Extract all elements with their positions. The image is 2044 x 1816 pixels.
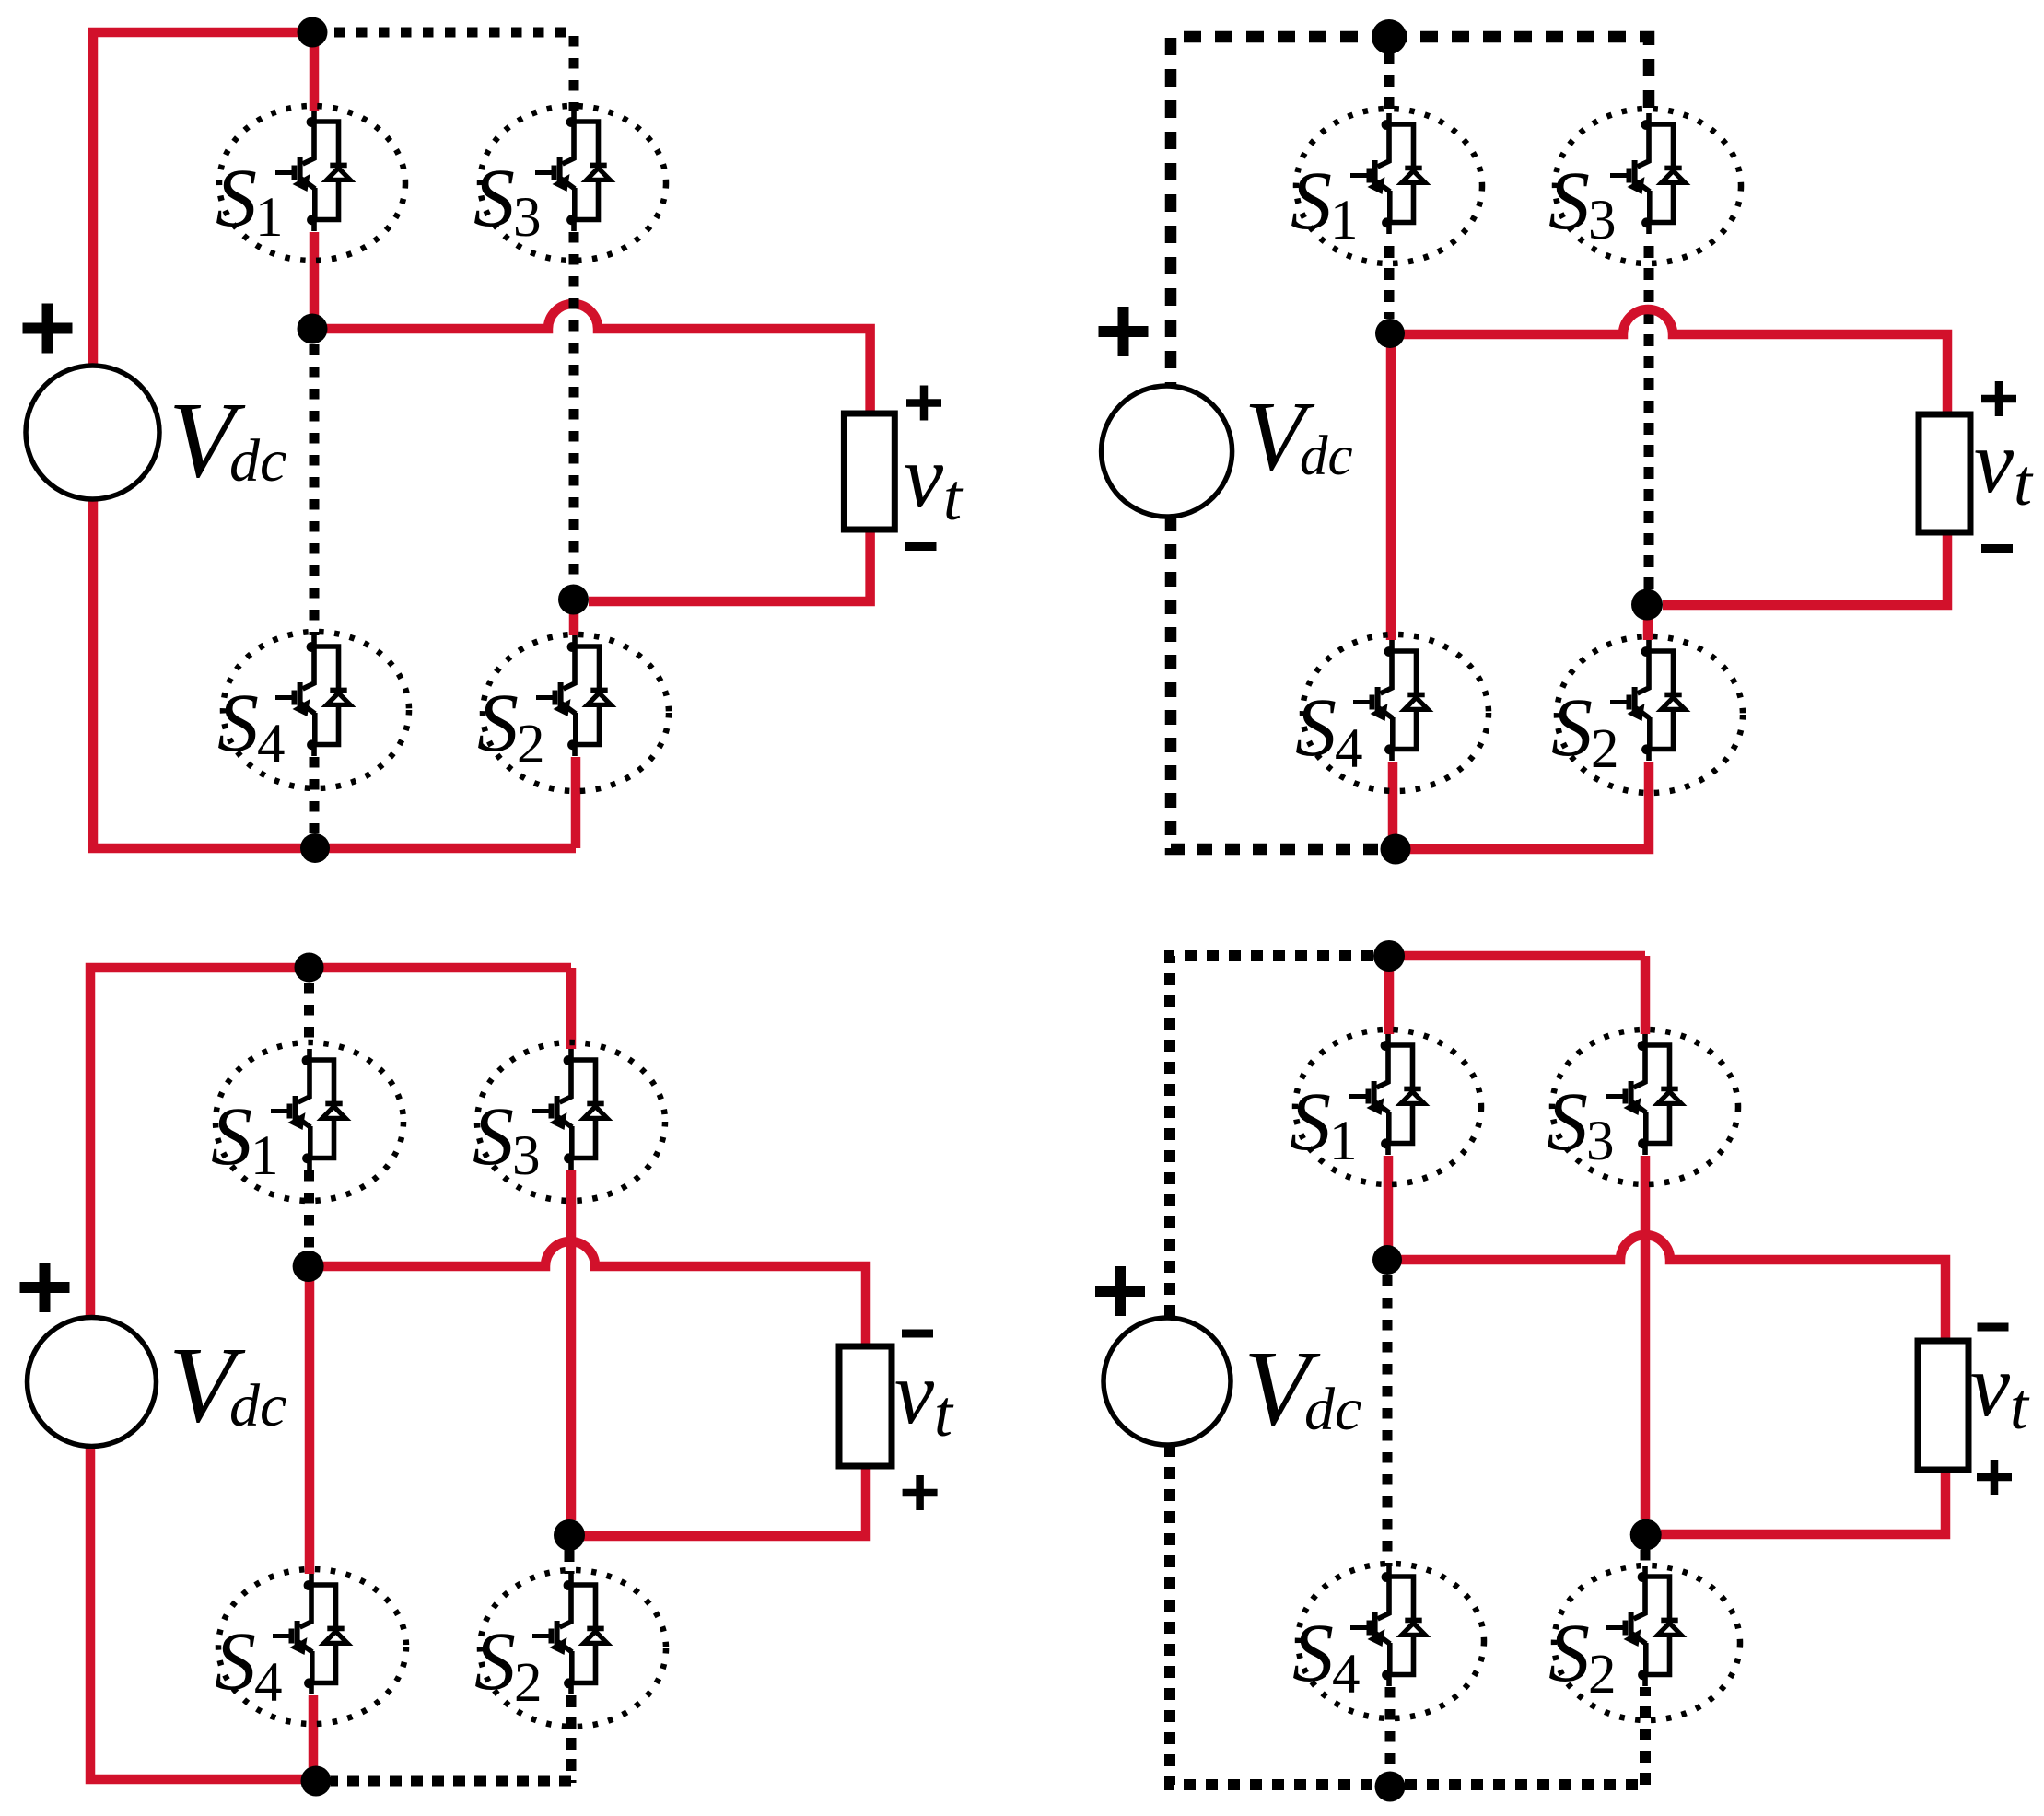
svg-text:S: S	[1551, 682, 1593, 774]
svg-text:3: 3	[512, 1125, 541, 1187]
svg-text:2: 2	[514, 1652, 543, 1714]
wire P4 S4 upper (off) (inactive path, dashed)	[1383, 1275, 1393, 1566]
svg-text:S: S	[477, 678, 519, 769]
svg-text:3: 3	[1588, 190, 1617, 251]
load resistor vt panel2	[1919, 414, 1970, 532]
svg-text:4: 4	[254, 1652, 283, 1714]
wire P3 node-a to load with crossover hop (conducting path, red)	[309, 1241, 866, 1346]
wire P1 node-a to load with crossover hop (conducting path, red)	[312, 304, 870, 413]
svg-text:S: S	[216, 153, 257, 244]
plus polarity mark of Vdc panel3	[20, 1263, 70, 1312]
dotted package outline around S4	[223, 632, 409, 788]
dotted package outline around S2	[480, 1570, 666, 1727]
svg-text:4: 4	[257, 714, 286, 775]
transistor S1 panel3 (IGBT with antiparallel diode)	[271, 1049, 345, 1170]
svg-text:2: 2	[517, 714, 545, 775]
node P2 negative dc rail (junction dot)	[1381, 834, 1411, 865]
svg-text:t: t	[934, 1377, 954, 1450]
wire P3 left rail lower + bottom rail left (conducting path, red)	[90, 1447, 316, 1779]
svg-text:v: v	[904, 427, 944, 526]
wire P3 S1 upper (off) (inactive path, dashed)	[304, 983, 314, 1049]
wire P2 S4 lower lead (conducting path, red)	[1388, 762, 1398, 849]
svg-text:1: 1	[255, 187, 284, 249]
svg-text:S: S	[1292, 1608, 1334, 1699]
transistor S2 panel1 (IGBT with antiparallel diode)	[536, 635, 611, 756]
svg-text:S: S	[211, 1091, 252, 1182]
wire P2 node-a to load with crossover hop (conducting path, red)	[1390, 309, 1947, 414]
node P4 node a (S1-S4 midpoint) (junction dot)	[1372, 1245, 1402, 1275]
node P4 negative dc rail (junction dot)	[1375, 1772, 1406, 1802]
dotted package outline around S1	[219, 106, 405, 261]
transistor S4 panel1 (IGBT with antiparallel diode)	[275, 635, 350, 756]
svg-text:S: S	[1548, 1608, 1590, 1699]
svg-text:1: 1	[251, 1125, 279, 1187]
svg-text:v: v	[1974, 413, 2015, 511]
wire P1 top rail left + left rail upper (conducting path, red)	[93, 32, 312, 366]
wire P4 top rail right (conducting path, red)	[1389, 951, 1645, 961]
wire P4 S3 lower lead through hop to node b (conducting path, red)	[1641, 1156, 1651, 1519]
wire P2 S2 upper lead (conducting path, red)	[1643, 605, 1653, 640]
wire P4 load bottom to node b (conducting path, red)	[1661, 1470, 1945, 1534]
wire P3 S3 upper lead (conducting path, red)	[566, 968, 577, 1049]
transistor S2 panel4 (IGBT with antiparallel diode)	[1606, 1566, 1681, 1686]
dotted package outline around S2	[1554, 1566, 1740, 1720]
wire P1 S2 lower lead (conducting path, red)	[571, 757, 581, 848]
svg-text:S: S	[473, 153, 515, 244]
node P1 positive dc rail (junction dot)	[298, 17, 328, 48]
plus polarity mark P2 load + (top)	[1981, 381, 2016, 416]
wire P1 load bottom to node b (conducting path, red)	[589, 530, 870, 601]
transistor S4 panel4 (IGBT with antiparallel diode)	[1350, 1566, 1425, 1686]
node P2 positive dc rail (junction dot)	[1372, 19, 1407, 54]
wire P4 left rail lower + bottom rail (off) (inactive path, dashed)	[1170, 1445, 1645, 1785]
voltage source Vdc panel3	[28, 1318, 157, 1447]
svg-text:dc: dc	[1304, 1376, 1361, 1443]
svg-text:1: 1	[1329, 1111, 1358, 1172]
node P1 negative dc rail (junction dot)	[300, 833, 330, 863]
transistor S2 panel3 (IGBT with antiparallel diode)	[532, 1574, 607, 1694]
node P1 node b (S3-S2 midpoint) (junction dot)	[558, 585, 589, 615]
dotted package outline around S1	[1295, 1030, 1481, 1184]
minus polarity mark P4 load - (top)	[1978, 1323, 2009, 1332]
wire P3 load bottom to node b (conducting path, red)	[584, 1466, 866, 1536]
wire P2 S1 upper (off) (inactive path, dashed)	[1384, 52, 1395, 113]
svg-text:v: v	[1970, 1336, 2011, 1435]
wire P3 S2 upper (off) (inactive path, dashed)	[565, 1550, 575, 1574]
voltage source Vdc panel4	[1104, 1318, 1231, 1445]
svg-text:S: S	[1295, 682, 1337, 774]
node P3 node b (S3-S2 midpoint) (junction dot)	[554, 1519, 585, 1551]
wire P2 load bottom to node b (conducting path, red)	[1663, 532, 1947, 605]
node P3 positive dc rail (junction dot)	[295, 953, 324, 983]
svg-text:3: 3	[1586, 1111, 1615, 1172]
minus polarity mark P2 load - (bottom)	[1981, 544, 2013, 553]
node P2 node b (S3-S2 midpoint) (junction dot)	[1631, 589, 1663, 621]
transistor S2 panel2 (IGBT with antiparallel diode)	[1610, 640, 1685, 761]
dotted package outline around S3	[477, 1042, 665, 1201]
wire P3 S4 lower lead (conducting path, red)	[309, 1695, 319, 1781]
transistor S4 panel2 (IGBT with antiparallel diode)	[1353, 640, 1428, 761]
wire P1 S4 lower (off) (inactive path, dashed)	[310, 757, 320, 833]
svg-text:dc: dc	[229, 1372, 286, 1439]
wire P4 node-a to load with crossover hop (conducting path, red)	[1387, 1235, 1945, 1341]
svg-text:S: S	[1548, 156, 1590, 247]
plus polarity mark of Vdc panel4	[1095, 1266, 1145, 1316]
wire P1 S3 lower (off) (inactive path, dashed)	[569, 232, 579, 585]
node P2 node a (S1-S4 midpoint) (junction dot)	[1375, 319, 1405, 348]
svg-text:3: 3	[513, 187, 542, 249]
dotted package outline around S1	[216, 1042, 403, 1201]
load resistor vt panel4	[1918, 1341, 1968, 1470]
transistor S1 panel1 (IGBT with antiparallel diode)	[275, 111, 350, 231]
wire P4 top rail left + left rail upper (off) (inactive path, dashed)	[1170, 956, 1373, 1318]
svg-text:S: S	[474, 1616, 516, 1707]
wire P1 S4 upper (off) (inactive path, dashed)	[310, 344, 320, 635]
transistor S3 panel3 (IGBT with antiparallel diode)	[532, 1049, 607, 1170]
transistor S3 panel2 (IGBT with antiparallel diode)	[1610, 113, 1685, 234]
minus polarity mark P3 load - (top)	[902, 1330, 933, 1338]
dotted package outline around S3	[480, 106, 666, 261]
transistor S3 panel1 (IGBT with antiparallel diode)	[535, 111, 610, 231]
transistor S1 panel4 (IGBT with antiparallel diode)	[1349, 1034, 1424, 1155]
wire P2 S1 lower (off) (inactive path, dashed)	[1384, 246, 1395, 319]
svg-text:S: S	[1547, 1077, 1588, 1168]
node P1 node a (S1-S4 midpoint) (junction dot)	[298, 314, 328, 344]
dotted package outline around S4	[1302, 634, 1489, 791]
dotted package outline around S3	[1552, 1030, 1738, 1184]
node P3 negative dc rail (junction dot)	[301, 1766, 332, 1797]
wire P2 left rail lower + bottom rail left (off) (inactive path, dashed)	[1171, 517, 1380, 849]
svg-text:4: 4	[1335, 718, 1363, 780]
svg-text:2: 2	[1588, 1644, 1617, 1705]
voltage source Vdc panel1	[26, 366, 159, 499]
wire P1 S1 upper lead (conducting path, red)	[310, 32, 320, 111]
dotted package outline around S3	[1555, 109, 1741, 263]
svg-text:S: S	[1291, 156, 1332, 247]
transistor S3 panel4 (IGBT with antiparallel diode)	[1606, 1034, 1681, 1155]
plus polarity mark P4 load + (bottom)	[1977, 1460, 2012, 1495]
dotted package outline around S4	[218, 1569, 406, 1724]
plus polarity mark of Vdc panel2	[1099, 307, 1149, 356]
wire P2 top rail right + S3 upper (off) (inactive path, dashed)	[1389, 37, 1649, 113]
wire P3 S3 lower lead through hop to node b (conducting path, red)	[566, 1170, 577, 1520]
wire P2 bottom rail right + S2 lower lead (conducting path, red)	[1396, 762, 1649, 849]
plus polarity mark P3 load + (bottom)	[903, 1475, 938, 1510]
node P4 positive dc rail (junction dot)	[1373, 940, 1405, 972]
wire P1 S2 upper lead (conducting path, red)	[569, 600, 579, 635]
minus polarity mark P1 load - (bottom)	[905, 542, 937, 551]
wire P1 S1 lower lead to node a (conducting path, red)	[310, 232, 320, 333]
wire P1 left rail lower + bottom rail (conducting path, red)	[93, 499, 576, 848]
svg-text:S: S	[215, 1616, 256, 1707]
load resistor vt panel1	[844, 413, 894, 530]
wire P3 top rail + left rail upper (conducting path, red)	[90, 968, 571, 1317]
wire P4 S1 lower lead to node a (conducting path, red)	[1384, 1156, 1394, 1260]
plus polarity mark of Vdc panel1	[23, 304, 73, 354]
svg-text:v: v	[894, 1344, 935, 1442]
svg-text:S: S	[473, 1091, 514, 1182]
transistor S4 panel3 (IGBT with antiparallel diode)	[273, 1574, 347, 1694]
wire P3 S1 lower (off) (inactive path, dashed)	[304, 1170, 314, 1251]
svg-text:S: S	[1290, 1077, 1331, 1168]
wire P4 S2 upper (off) (inactive path, dashed)	[1641, 1550, 1651, 1566]
wire P4 S3 upper lead (conducting path, red)	[1641, 956, 1651, 1034]
svg-text:t: t	[2014, 446, 2034, 519]
dotted package outline around S1	[1296, 109, 1482, 263]
plus polarity mark P1 load + (top)	[906, 386, 941, 421]
svg-text:S: S	[217, 678, 259, 769]
wire P3 S2 lower + bottom rail right (off) (inactive path, dashed)	[331, 1695, 571, 1783]
dotted package outline around S2	[483, 634, 669, 791]
node P4 node b (S3-S2 midpoint) (junction dot)	[1630, 1519, 1662, 1551]
svg-text:t: t	[943, 460, 964, 534]
svg-text:4: 4	[1332, 1644, 1361, 1705]
transistor S1 panel2 (IGBT with antiparallel diode)	[1350, 113, 1425, 234]
dotted package outline around S4	[1298, 1564, 1484, 1718]
wire P3 S4 upper lead (conducting path, red)	[305, 1266, 315, 1574]
wire P2 top rail left + left rail upper (off) (inactive path, dashed)	[1171, 37, 1389, 386]
wire P4 S2 bottom lead (off) (inactive path, dashed)	[1640, 1687, 1651, 1785]
node P3 node a (S1-S4 midpoint) (junction dot)	[293, 1251, 324, 1282]
wire P1 top rail right + S3 upper (off) (inactive path, dashed)	[312, 32, 574, 111]
wire P4 S4 lower (off) (inactive path, dashed)	[1385, 1687, 1396, 1785]
wire P2 S3 lower (off) (inactive path, dashed)	[1644, 246, 1654, 589]
svg-text:t: t	[2010, 1369, 2030, 1443]
svg-text:dc: dc	[229, 427, 286, 495]
load resistor vt panel3	[839, 1346, 892, 1466]
wire P4 S1 upper lead (conducting path, red)	[1384, 956, 1395, 1034]
svg-text:1: 1	[1330, 190, 1359, 251]
wire P2 S4 upper lead (conducting path, red)	[1386, 333, 1396, 640]
svg-text:2: 2	[1591, 718, 1619, 780]
svg-text:dc: dc	[1300, 425, 1353, 487]
dotted package outline around S2	[1557, 636, 1743, 793]
voltage source Vdc panel2	[1102, 386, 1232, 517]
